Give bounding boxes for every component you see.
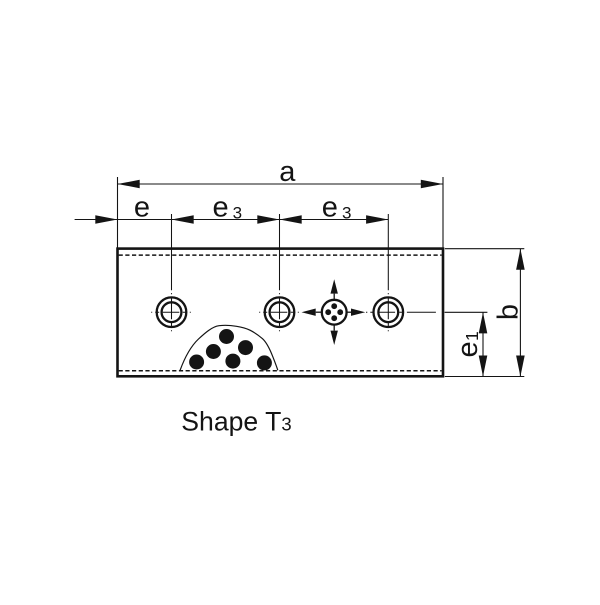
dimension e1: dimension line — [479, 312, 488, 376]
symbol arrow right — [347, 309, 366, 316]
hole H3 — [366, 297, 442, 327]
dimension b: top extension line — [445, 248, 525, 250]
dimension a: label — [279, 156, 296, 188]
top hidden edge (dashed) — [119, 254, 442, 256]
dimension a: extension line left — [117, 177, 119, 248]
symbol arrow up — [331, 279, 338, 299]
symbol dot left — [325, 309, 331, 315]
dimension e: label — [134, 192, 150, 224]
granule dot 4 — [189, 355, 204, 370]
hole H1 — [151, 297, 192, 327]
plate outline — [118, 249, 444, 377]
dimension e: outside arrow at plate edge — [95, 215, 117, 223]
granule dot 1 — [219, 329, 234, 344]
granule mound (broken-out section) — [180, 325, 278, 370]
svg-text:e: e — [452, 341, 484, 357]
caption Shape T3 — [181, 407, 291, 437]
symbol dot top — [331, 303, 337, 309]
svg-text:1: 1 — [462, 331, 482, 341]
dimension a: extension line right — [442, 177, 444, 248]
dimension e1: label — [452, 331, 484, 357]
dimension e3 second: right arrow — [366, 215, 388, 223]
svg-text:Shape T3: Shape T3 — [181, 407, 291, 437]
extension line hole1 — [171, 214, 173, 332]
bottom extension line (b and e1) — [445, 376, 525, 378]
symbol arrow left — [302, 309, 322, 316]
hole H2 — [259, 297, 300, 327]
bottom hidden edge (dashed) — [119, 370, 442, 372]
dimension b: dimension line — [516, 249, 525, 377]
granule dot 5 — [225, 354, 240, 369]
svg-text:b: b — [493, 304, 525, 320]
symbol dot bottom — [331, 315, 337, 321]
granule dot 6 — [257, 355, 272, 370]
extension line hole3 — [387, 214, 389, 332]
dimension e3 first: label — [213, 192, 243, 224]
hole3 centerline to e1 extension — [445, 311, 488, 313]
dimension b: label — [493, 304, 525, 320]
dimension e3 first: right arrow — [257, 215, 279, 223]
svg-text:e: e — [134, 192, 150, 224]
dimension e3 second: label — [322, 192, 352, 224]
granule dot 2 — [238, 340, 253, 355]
symbol dot right — [337, 309, 343, 315]
granule dot 3 — [206, 344, 221, 359]
dimension e/e3: dimension line — [75, 219, 389, 221]
dimension e3 first: left arrow — [172, 215, 194, 223]
extension line hole2 — [279, 214, 281, 332]
dimension e3 second: left arrow — [280, 215, 302, 223]
svg-text:a: a — [279, 156, 296, 188]
adjustability symbol circle — [322, 300, 347, 325]
symbol arrow down — [331, 325, 338, 345]
dimension a: dimension line — [118, 180, 444, 188]
